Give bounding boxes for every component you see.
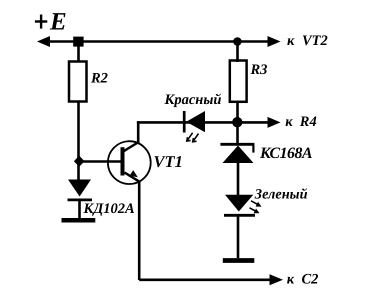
- svg-text:к: к: [285, 114, 293, 130]
- svg-text:R4: R4: [299, 114, 317, 130]
- svg-text:КС168А: КС168А: [259, 145, 312, 162]
- svg-text:C2: C2: [302, 272, 319, 288]
- svg-text:КД102А: КД102А: [83, 201, 135, 217]
- svg-text:E: E: [49, 9, 67, 36]
- svg-text:к: к: [287, 272, 295, 288]
- svg-text:VT2: VT2: [302, 33, 328, 49]
- svg-text:R2: R2: [90, 70, 108, 86]
- svg-text:VT1: VT1: [154, 152, 183, 171]
- svg-text:Красный: Красный: [164, 92, 222, 108]
- svg-text:Зеленый: Зеленый: [254, 186, 308, 202]
- svg-text:к: к: [287, 33, 295, 49]
- svg-text:R3: R3: [250, 62, 268, 78]
